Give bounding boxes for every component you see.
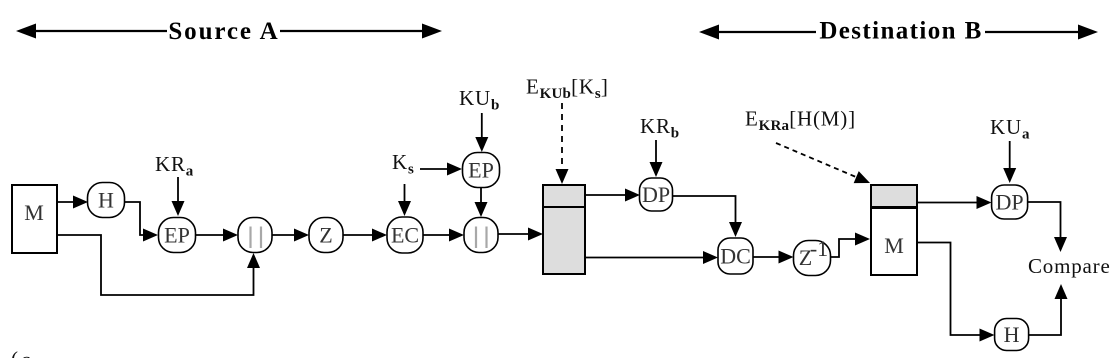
svg-text:M: M bbox=[24, 200, 44, 225]
svg-text:-1: -1 bbox=[810, 236, 828, 261]
svg-text:EP: EP bbox=[468, 158, 494, 183]
svg-text:EP: EP bbox=[164, 223, 190, 248]
svg-text:H: H bbox=[1004, 322, 1020, 347]
svg-text:Source A: Source A bbox=[168, 18, 279, 45]
svg-text:DC: DC bbox=[720, 244, 751, 269]
svg-text:c: c bbox=[21, 348, 31, 358]
svg-text:H: H bbox=[98, 188, 114, 213]
svg-text:(: ( bbox=[11, 347, 19, 358]
svg-text:DP: DP bbox=[642, 182, 670, 207]
svg-text:Z: Z bbox=[319, 223, 332, 248]
svg-text:Compare: Compare bbox=[1028, 254, 1110, 278]
svg-text:EC: EC bbox=[391, 223, 419, 248]
svg-text:M: M bbox=[884, 233, 904, 258]
svg-text:DP: DP bbox=[996, 190, 1024, 215]
svg-text:Destination B: Destination B bbox=[819, 18, 982, 45]
